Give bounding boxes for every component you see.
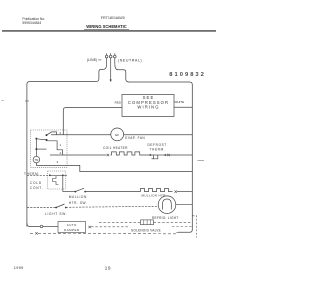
connector x bottom row: [35, 232, 37, 234]
ground arrowhead: [110, 80, 112, 83]
wire light switch to bulb: [66, 206, 159, 207]
svg-text:EVAP. FAN: EVAP. FAN: [125, 136, 145, 140]
compressor box: [122, 95, 174, 117]
svg-text:(LINE): (LINE): [87, 58, 97, 62]
svg-text:TM: TM: [35, 158, 39, 162]
timer contact node mid: [46, 139, 48, 141]
stray tick right of rail: [198, 160, 205, 162]
wire bulb to rail: [176, 204, 193, 206]
mullion heater switch: [63, 191, 75, 193]
wire line prong to left rail: [27, 64, 107, 226]
defrost timer box: [31, 130, 68, 167]
svg-text:DEFROST: DEFROST: [148, 143, 167, 147]
timer switch lower node: [35, 148, 37, 150]
cold control bellows: [53, 176, 59, 185]
svg-text:THERM.: THERM.: [150, 148, 166, 152]
svg-text:EF: EF: [115, 133, 119, 137]
wire connector to damper box: [43, 226, 58, 228]
stray speck left edge: [2, 100, 4, 102]
junction tick on left rail: [25, 100, 29, 102]
timer switch pivot node: [35, 138, 37, 140]
cold control box: [48, 171, 66, 189]
timer step to terminal 4: [47, 141, 63, 155]
dashed corner right: [193, 216, 197, 238]
cold control contact left: [49, 174, 51, 176]
svg-text:RED: RED: [115, 100, 122, 104]
wire red to compressor: [63, 108, 122, 135]
timer wire pivot to contact: [36, 139, 46, 140]
wire rail to light switch: [27, 207, 56, 209]
wire coil heater to defrost thermostat: [141, 154, 150, 156]
svg-text:DAMPER: DAMPER: [64, 228, 79, 232]
connector x damper out: [89, 226, 91, 228]
label DEFROST THERM.: [148, 143, 167, 152]
svg-text:1999: 1999: [14, 266, 24, 270]
compressor box text: [128, 95, 169, 110]
svg-text:WIRING SCHEMATIC: WIRING SCHEMATIC: [86, 24, 126, 29]
timer blade to terminal 2: [47, 132, 57, 135]
connector x coil heater: [107, 154, 109, 156]
timer wire lower pivot: [36, 148, 46, 150]
connector circle damper: [40, 225, 43, 228]
timer motor TM: [33, 156, 40, 163]
timer pivot vertical wire: [35, 139, 37, 157]
wire damper to right dashes: [91, 226, 128, 228]
svg-text:CONT.: CONT.: [30, 186, 44, 190]
svg-text:SOLENOID VALVE: SOLENOID VALVE: [131, 229, 161, 233]
connector x mullion heater: [175, 190, 177, 192]
svg-text:COLD: COLD: [30, 181, 42, 185]
svg-text:8109832: 8109832: [169, 72, 206, 78]
auto damper box: [58, 222, 86, 233]
title underline: [84, 28, 129, 30]
bulb filament: [163, 199, 172, 210]
wire neutral prong to right rail: [115, 64, 193, 232]
cold control wire across: [50, 174, 67, 176]
svg-text:AUTO: AUTO: [67, 223, 77, 227]
header publication number: [22, 17, 45, 25]
wire white compressor to rail: [174, 106, 192, 108]
mullion heater resistor: [141, 189, 173, 192]
svg-text:LIGHT SW.: LIGHT SW.: [45, 212, 67, 216]
wire bottom dashed row: [30, 232, 178, 234]
header rule: [2, 30, 216, 32]
svg-text:MULLION: MULLION: [69, 195, 87, 199]
light switch: [55, 207, 57, 209]
wire evap fan to rail: [124, 134, 193, 136]
svg-text:19: 19: [105, 265, 111, 270]
refrigerator light bulb: [158, 196, 176, 214]
solenoid valve coil: [141, 220, 154, 225]
wire rail to cold control: [27, 174, 50, 176]
svg-text:HTR. SW.: HTR. SW.: [69, 201, 88, 205]
svg-text:FRT18G4AW0: FRT18G4AW0: [101, 16, 125, 20]
plug prong line: [105, 53, 108, 64]
coil heater resistor: [111, 152, 141, 155]
connector x defrost therm: [167, 154, 169, 156]
svg-text:COIL HEATER: COIL HEATER: [103, 146, 128, 150]
wire timer motor to terminal 3: [36, 163, 192, 172]
wire terminal 2 to evap fan: [51, 134, 111, 136]
wire solenoid valve row: [99, 221, 141, 223]
wire rail corner to damper: [27, 223, 40, 227]
wire defrost therm to rail: [166, 154, 192, 156]
svg-text:WHITE: WHITE: [175, 100, 185, 104]
dash after (LINE): [98, 59, 101, 61]
plug prong neutral: [114, 53, 117, 64]
wire mullion heater to rail: [177, 191, 192, 193]
plug prong ground: [109, 53, 112, 79]
label MULLION HTR. SW.: [69, 195, 88, 205]
cold control contact right: [62, 174, 64, 176]
svg-text:(NEUTRAL): (NEUTRAL): [118, 58, 142, 62]
svg-text:REFRIG. LIGHT: REFRIG. LIGHT: [152, 216, 178, 220]
wire solenoid to rail: [154, 221, 193, 223]
wire cold control junction down to mullion switch: [62, 175, 64, 191]
svg-text:5995344844: 5995344844: [22, 21, 41, 25]
wire terminal 4 to coil heater: [50, 154, 107, 156]
evap fan motor: [111, 128, 124, 141]
timer contact node upper: [46, 134, 48, 136]
wire mullion switch to mullion heater: [85, 191, 140, 193]
label COLD CONT.: [30, 181, 44, 190]
defrost thermostat: [150, 154, 165, 156]
svg-text:WIRING: WIRING: [137, 105, 159, 110]
